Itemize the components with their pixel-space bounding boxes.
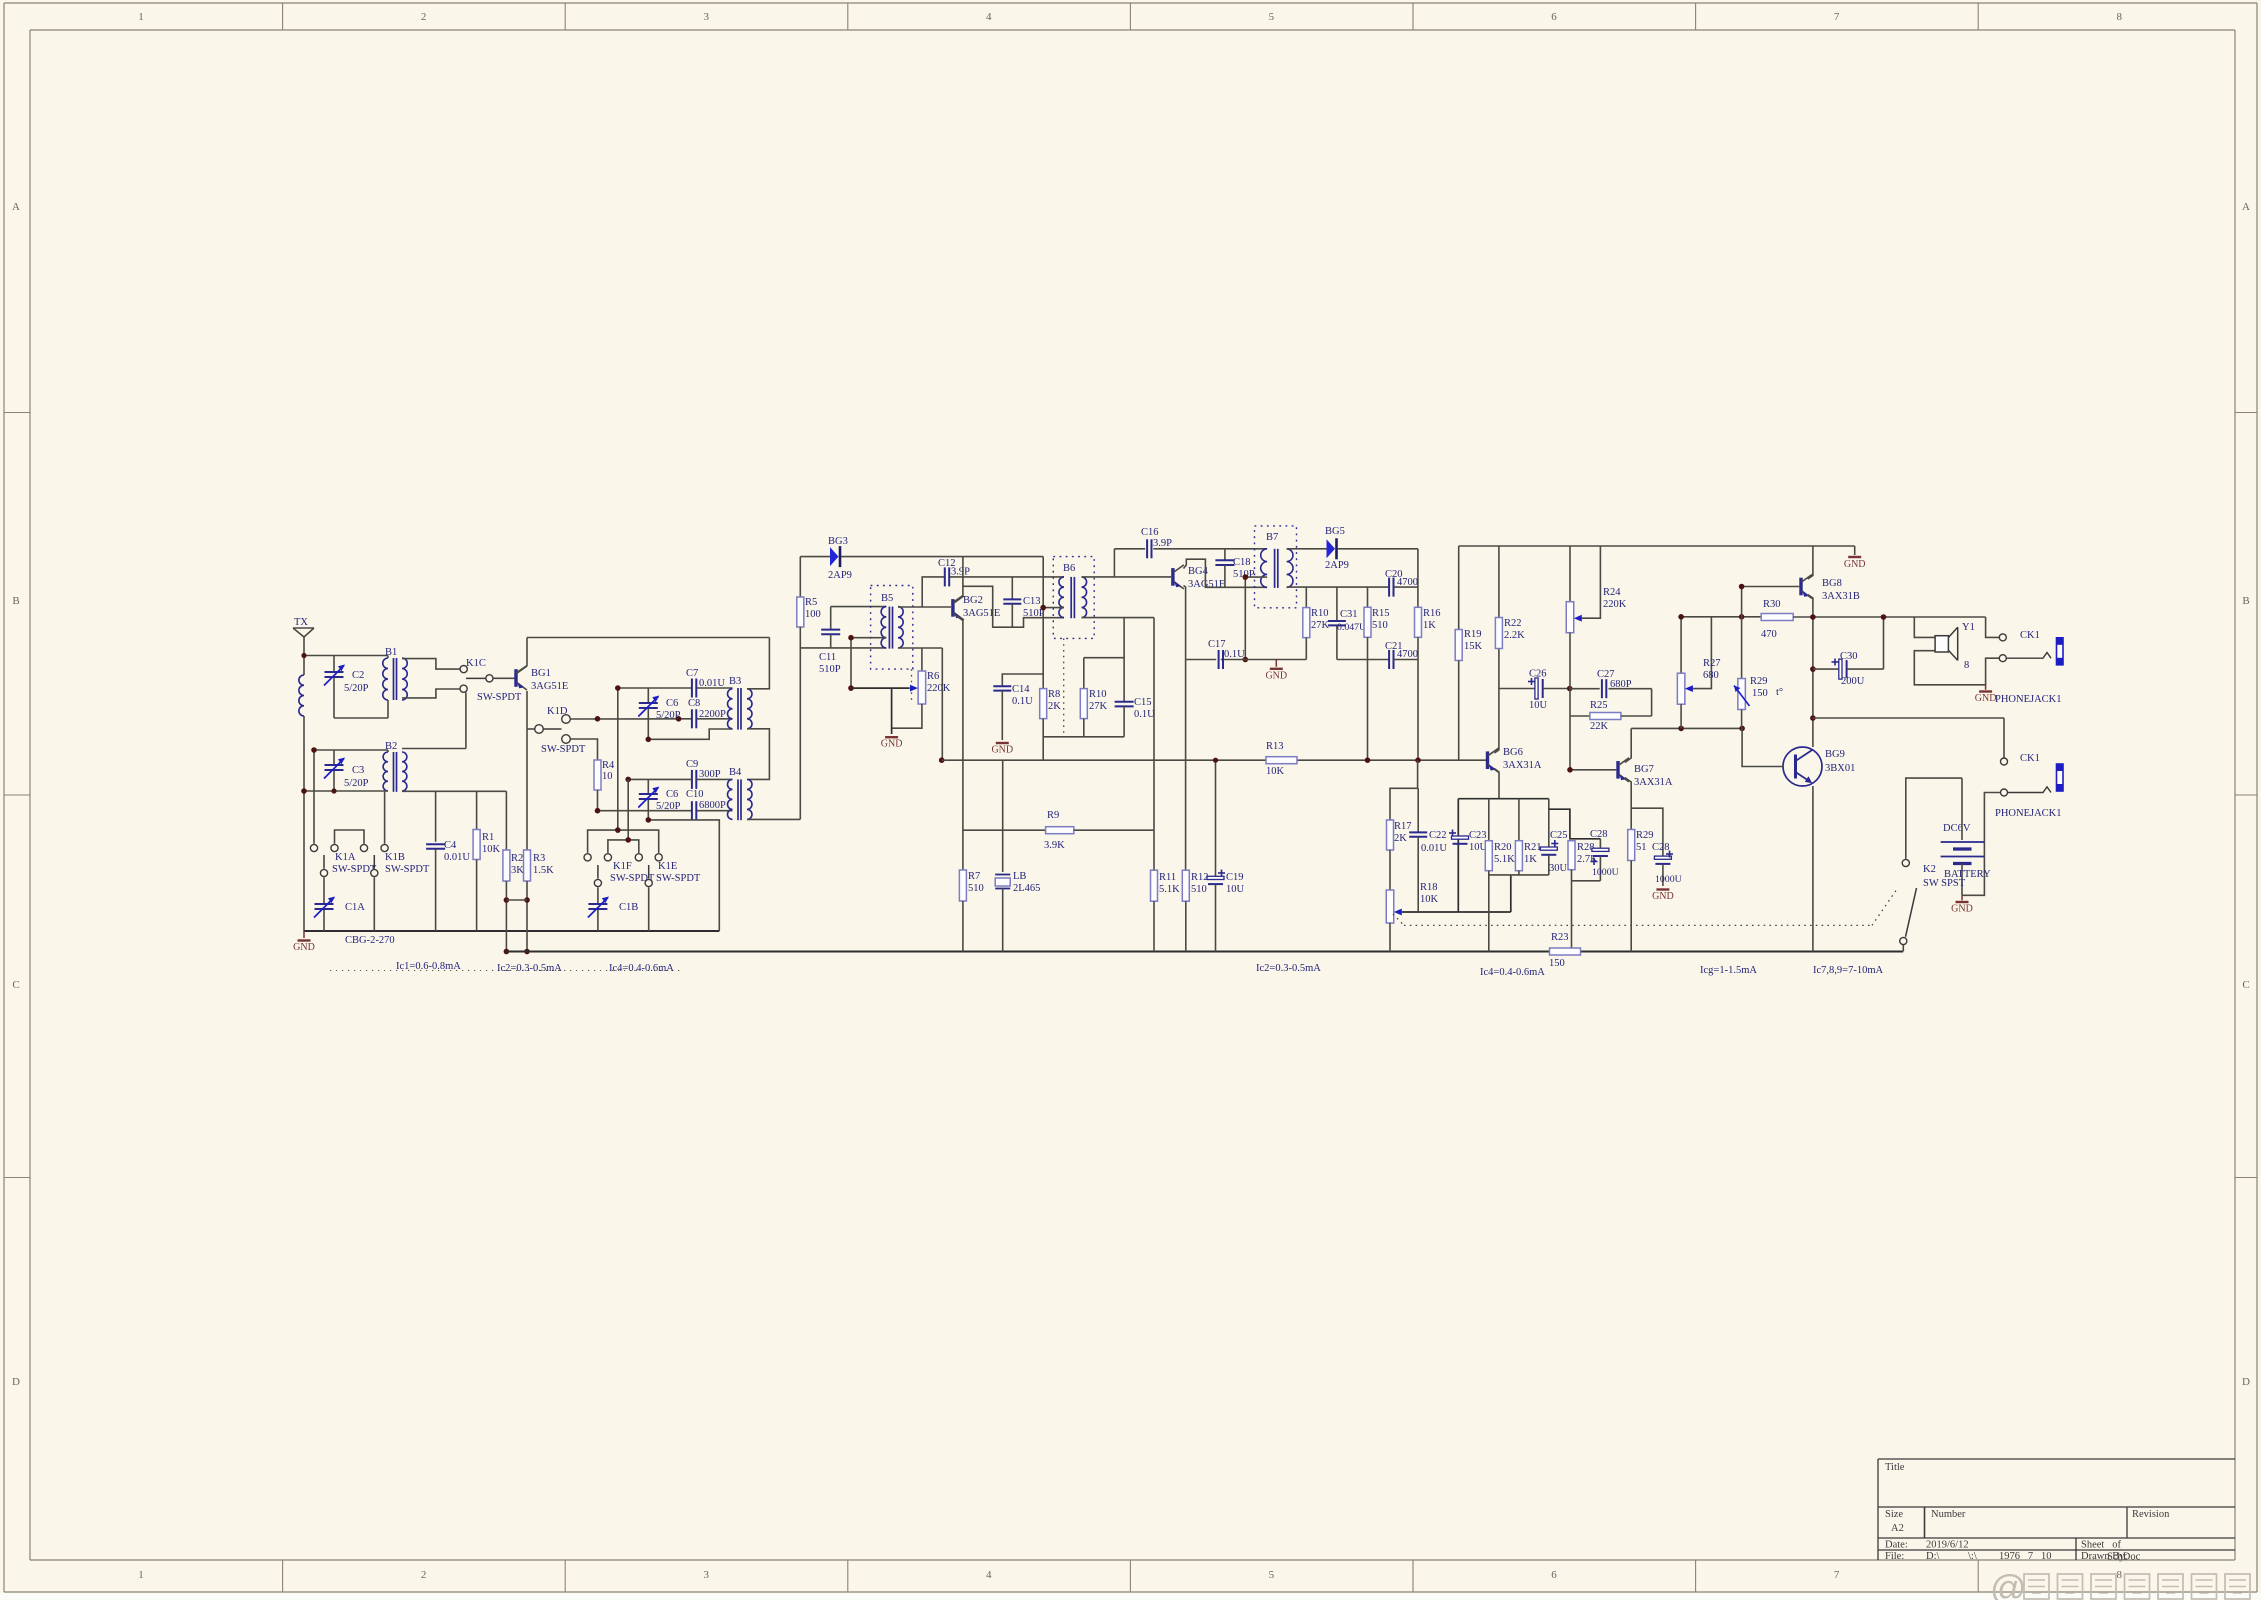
svg-text:3AG51E: 3AG51E (963, 608, 1000, 619)
transformer B3 (728, 676, 753, 730)
node dots C3 bottom net (301, 788, 307, 794)
wire BG2 collector to supply (953, 557, 963, 603)
wire B5 secondary bottom to long rail (898, 648, 942, 760)
top supply rail right section (1459, 545, 1855, 547)
thermistor R29 150 (1734, 587, 1783, 729)
svg-text:3AG51E: 3AG51E (1188, 579, 1225, 590)
switch K1A SW-SPDT (310, 830, 377, 877)
svg-text:CK1: CK1 (2020, 753, 2040, 764)
wire R18 wiper bus (1458, 875, 1511, 912)
wire BG7 base from R24 column (1567, 767, 1616, 773)
mid rail wire to BG6 base (942, 759, 1487, 761)
svg-text:B: B (2242, 595, 2249, 607)
phone jack CK1 upper (1986, 617, 2063, 705)
wire R8 R10 C15 bottom bus (1043, 736, 1124, 738)
svg-text:510: 510 (1191, 884, 1207, 895)
wire B5 secondary to BG2 base and C12 (898, 577, 1064, 607)
transformer B4 (728, 767, 753, 820)
resistor R15 510 (1364, 587, 1390, 760)
transformer B6 with shield box (1053, 557, 1094, 737)
resistor R16 1K (1415, 607, 1441, 760)
svg-text:C3: C3 (352, 765, 364, 776)
wire C3 upper net to K1A (314, 750, 388, 844)
svg-text:GND: GND (1844, 559, 1866, 570)
switch K2 SW SPST (1900, 859, 1966, 951)
potentiometer R27 680 (1677, 617, 1720, 729)
wire BG5 output down to R16 (1417, 549, 1419, 608)
wire B7 secondary bottom bus (1287, 586, 1418, 588)
potentiometer R6 220K (851, 648, 951, 734)
resistor R17 2K (1387, 760, 1418, 890)
svg-text:C13: C13 (1023, 596, 1041, 607)
switch K1F SW-SPDT (584, 827, 659, 886)
wire B2 secondary top to K1C (402, 692, 466, 748)
node dots R30 bus (1678, 614, 1684, 620)
svg-text:0.01U: 0.01U (1421, 843, 1447, 854)
capacitor C7 0.01U (686, 668, 725, 698)
svg-text:0.1U: 0.1U (1224, 649, 1245, 660)
svg-text:R6: R6 (927, 671, 939, 682)
wire R7 top branch to LB and R9 (963, 829, 1046, 831)
wire R28 C28 bottom bus to rail (1572, 880, 1601, 882)
capacitor C8 2200P (688, 698, 726, 728)
resistor R25 22K horizontal (1570, 700, 1652, 732)
svg-text:R8: R8 (1048, 689, 1060, 700)
resistor R11 5.1K (1151, 618, 1181, 952)
svg-text:1: 1 (138, 1569, 144, 1581)
wire R4 bottom to C10 line (598, 790, 733, 811)
svg-text:R1: R1 (482, 832, 494, 843)
svg-text:R16: R16 (1423, 608, 1441, 619)
svg-text:470: 470 (1761, 629, 1777, 640)
svg-text:2AP9: 2AP9 (828, 570, 852, 581)
svg-text:A2: A2 (1891, 1523, 1904, 1534)
switch K1C SW-SPDT (460, 658, 522, 703)
resistor R10 27K second (1303, 587, 1330, 659)
transformer B7 with shield box (1255, 526, 1297, 608)
svg-text:C7: C7 (686, 668, 698, 679)
svg-text:27K: 27K (1311, 620, 1330, 631)
ground GND symbol at rail left (293, 931, 315, 953)
svg-text:R29: R29 (1750, 676, 1768, 687)
watermark juejin community (1990, 1567, 2250, 1600)
svg-text:Ic7,8,9=7-10mA: Ic7,8,9=7-10mA (1813, 965, 1883, 976)
wire K2 to battery top (1906, 778, 1962, 859)
capacitor C2 5/20P variable (324, 656, 369, 719)
svg-text:SW-SPDT: SW-SPDT (656, 873, 701, 884)
svg-text:SW-SPDT: SW-SPDT (477, 692, 522, 703)
svg-text:C28: C28 (1652, 842, 1670, 853)
svg-text:Icg=1-1.5mA: Icg=1-1.5mA (1700, 965, 1757, 976)
svg-text:6: 6 (1551, 11, 1557, 23)
node dot C26 C27 junction (1567, 686, 1573, 692)
svg-text:C30: C30 (1840, 651, 1858, 662)
svg-text:K1C: K1C (466, 658, 486, 669)
wire BG6 collector up to C26 node (1495, 648, 1499, 753)
svg-text:R29: R29 (1636, 830, 1654, 841)
svg-text:3: 3 (703, 11, 709, 23)
ground GND below battery (1951, 895, 1973, 914)
svg-text:K1A: K1A (335, 852, 356, 863)
svg-text:K2: K2 (1923, 864, 1936, 875)
svg-text:Ic4=0.4-0.6mA: Ic4=0.4-0.6mA (609, 963, 674, 974)
svg-text:\:\: \:\ (1968, 1551, 1977, 1562)
svg-text:10K: 10K (1266, 766, 1285, 777)
svg-text:C1B: C1B (619, 902, 638, 913)
resistor R23 150 horizontal on rail (1549, 932, 1581, 969)
resistor R28 2.7K (1568, 841, 1598, 952)
transformer B2 (383, 741, 407, 792)
svg-text:51: 51 (1636, 842, 1647, 853)
svg-text:1K: 1K (1524, 854, 1537, 865)
svg-text:GND: GND (991, 745, 1013, 756)
svg-text:Revision: Revision (2132, 1509, 2170, 1520)
switch K1E SW-SPDT (608, 779, 701, 931)
svg-text:680P: 680P (1610, 679, 1632, 690)
svg-text:7: 7 (1834, 11, 1840, 23)
capacitor C21 4700 (1368, 641, 1419, 669)
resistor R9 3.9K horizontal (1044, 810, 1154, 851)
svg-text:File:: File: (1885, 1551, 1904, 1562)
svg-text:3K: 3K (511, 865, 524, 876)
wire BG9 emitter to rail (1812, 786, 1814, 952)
wire BG8 emitter column (1808, 595, 1813, 748)
node dots on mid rail (1365, 757, 1371, 763)
svg-text:2: 2 (421, 11, 427, 23)
svg-text:R10: R10 (1089, 689, 1107, 700)
svg-text:680: 680 (1703, 670, 1719, 681)
svg-text:R24: R24 (1603, 587, 1621, 598)
svg-text:R2: R2 (511, 853, 523, 864)
resistor R1 10K (473, 791, 500, 931)
node dot B6 tap (1040, 605, 1046, 611)
resistor R13 10K horizontal (1266, 741, 1297, 777)
svg-text:R22: R22 (1504, 618, 1522, 629)
ground GND symbol below R6 (881, 737, 903, 750)
resistor R19 15K (1455, 546, 1482, 760)
wire oscillator feed to B6 tap (1043, 557, 1064, 618)
wire C2 bottom to B1 primary bottom (334, 700, 388, 718)
svg-text:5.1K: 5.1K (1494, 854, 1515, 865)
svg-text:C6: C6 (666, 698, 678, 709)
svg-text:150: 150 (1549, 958, 1565, 969)
svg-text:C22: C22 (1429, 830, 1447, 841)
svg-text:5: 5 (1269, 11, 1275, 23)
svg-text:10: 10 (602, 771, 613, 782)
diode BG3 2AP9 (800, 536, 1043, 581)
svg-text:C4: C4 (444, 840, 457, 851)
svg-text:100: 100 (805, 609, 821, 620)
svg-text:0.01U: 0.01U (699, 678, 725, 689)
wire BG9 base from collector bus (1742, 728, 1783, 766)
svg-text:Number: Number (1931, 1509, 1966, 1520)
svg-text:1: 1 (138, 11, 144, 23)
svg-text:10U: 10U (1529, 700, 1548, 711)
svg-text:2K: 2K (1394, 833, 1407, 844)
mechanical link dotted line K1 (330, 970, 680, 972)
svg-text:B5: B5 (881, 593, 893, 604)
svg-text:BG8: BG8 (1822, 578, 1842, 589)
svg-text:22K: 22K (1590, 721, 1609, 732)
svg-text:B1: B1 (385, 647, 397, 658)
svg-text:BG9: BG9 (1825, 749, 1845, 760)
node dot C9 net (625, 777, 631, 783)
svg-text:C25: C25 (1550, 830, 1568, 841)
wire antenna stem to C3 bottom net (304, 791, 388, 844)
capacitor C30 200U electrolytic (1813, 617, 1884, 687)
svg-text:SW-SPDT: SW-SPDT (541, 744, 586, 755)
svg-text:300P: 300P (699, 769, 721, 780)
wire BG2 emitter down to R7 (953, 614, 963, 871)
capacitor C16 3.9P (1114, 527, 1267, 577)
svg-text:TX: TX (294, 617, 308, 628)
svg-text:C14: C14 (1012, 684, 1030, 695)
capacitor C15 0.1U (1084, 618, 1155, 737)
svg-text:2.2K: 2.2K (1504, 630, 1525, 641)
capacitor C22 0.01U (1409, 788, 1447, 911)
svg-text:BG6: BG6 (1503, 747, 1523, 758)
transformer B5 with shield box (871, 586, 913, 701)
svg-text:A: A (12, 201, 20, 213)
transistor BG8 3AX31B (1801, 575, 1860, 603)
transistor BG4 3AG51E (1082, 565, 1226, 590)
svg-text:Y1: Y1 (1962, 622, 1975, 633)
svg-text:3AX31A: 3AX31A (1503, 760, 1542, 771)
node dot antenna-C2 junction (301, 653, 306, 658)
svg-text:4700: 4700 (1397, 577, 1418, 588)
node dot C6 lower bottom (646, 817, 652, 823)
svg-text:R18: R18 (1420, 882, 1438, 893)
svg-text:30U: 30U (1549, 863, 1568, 874)
svg-text:10U: 10U (1226, 884, 1245, 895)
wire K1C common to BG1 base (493, 677, 514, 679)
capacitor C17 0.1U (1208, 639, 1245, 669)
wire B5 feedback tap (851, 638, 886, 688)
svg-text:2019/6/12: 2019/6/12 (1926, 1540, 1969, 1551)
potentiometer R18 10K (1386, 882, 1458, 952)
capacitor C27 680P (1570, 669, 1652, 716)
zone letters left and right (12, 201, 2250, 1388)
svg-text:R4: R4 (602, 760, 615, 771)
svg-text:@: @ (1990, 1567, 2027, 1600)
wire antenna stem to ground rail (303, 716, 305, 931)
switch K1B SW-SPDT (360, 844, 430, 931)
svg-text:R12: R12 (1191, 872, 1209, 883)
svg-text:GND: GND (1265, 670, 1287, 681)
svg-text:5/20P: 5/20P (344, 683, 369, 694)
ground rail GND bus left section (304, 930, 719, 932)
svg-text:4: 4 (986, 11, 992, 23)
crystal LB 2L465 (995, 760, 1040, 951)
diode BG5 2AP9 (1287, 526, 1418, 571)
svg-text:1K: 1K (1423, 620, 1436, 631)
svg-text:DC6V: DC6V (1943, 823, 1971, 834)
svg-text:R13: R13 (1266, 741, 1284, 752)
svg-text:C19: C19 (1226, 872, 1244, 883)
svg-text:SW SPST: SW SPST (1923, 878, 1966, 889)
resistor R10 27K first (1080, 658, 1107, 737)
svg-text:R21: R21 (1524, 842, 1542, 853)
svg-text:C9: C9 (686, 759, 698, 770)
wire K1D throw to C8 and B3 tap (570, 718, 732, 720)
svg-text:R3: R3 (533, 853, 545, 864)
capacitor C25 30U electrolytic (1540, 799, 1567, 875)
svg-text:GND: GND (293, 942, 315, 953)
svg-text:R9: R9 (1047, 810, 1059, 821)
capacitor C1B variable (588, 887, 638, 931)
svg-text:C8: C8 (688, 698, 700, 709)
svg-text:GND: GND (1652, 891, 1674, 902)
ground GND below second C28 (1652, 890, 1674, 903)
svg-text:D:\: D:\ (1926, 1551, 1940, 1562)
capacitor C9 300P (686, 759, 721, 789)
node dots B7 tap (1243, 574, 1249, 580)
svg-text:27K: 27K (1089, 701, 1108, 712)
svg-text:Sheet of: Sheet of (2081, 1540, 2121, 1551)
resistor R12 510 (1182, 870, 1208, 951)
svg-text:GND: GND (1975, 693, 1997, 704)
svg-text:GND: GND (881, 739, 903, 750)
svg-text:0.1U: 0.1U (1012, 696, 1033, 707)
capacitor C11 510P (819, 607, 841, 675)
svg-text:K1B: K1B (385, 852, 405, 863)
wire C11 top to B5 primary (831, 606, 887, 608)
svg-text:150: 150 (1752, 688, 1768, 699)
svg-text:CK1: CK1 (2020, 630, 2040, 641)
svg-text:C2: C2 (352, 670, 364, 681)
transistor BG7 3AX31A (1618, 758, 1673, 788)
transistor BG6 3AX31A (1488, 747, 1542, 772)
svg-text:B3: B3 (729, 676, 741, 687)
svg-text:8: 8 (2116, 11, 2122, 23)
svg-text:R17: R17 (1394, 821, 1412, 832)
wire B2 secondary bottom to bias network (402, 790, 506, 792)
svg-text:3.9P: 3.9P (951, 567, 970, 578)
svg-text:220K: 220K (927, 683, 951, 694)
wire BG8 emitter to lower jack (1813, 718, 2004, 758)
wire BG6 emitter to emitter bus (1494, 769, 1499, 799)
resistor R22 2.2K (1495, 546, 1525, 649)
hook wire emitter bus to R28 (1549, 809, 1601, 839)
svg-text:BG3: BG3 (828, 536, 848, 547)
resistor R20 5.1K (1485, 799, 1515, 952)
wire BG7 collector riser (1625, 728, 1631, 762)
svg-text:15K: 15K (1464, 641, 1483, 652)
svg-text:5.1K: 5.1K (1159, 884, 1180, 895)
svg-text:B7: B7 (1266, 532, 1278, 543)
svg-text:6: 6 (1551, 1569, 1557, 1581)
svg-text:2K: 2K (1048, 701, 1061, 712)
svg-text:C6: C6 (666, 789, 678, 800)
wire C7 net from switch feed (618, 688, 733, 830)
svg-text:2AP9: 2AP9 (1325, 560, 1349, 571)
svg-text:C15: C15 (1134, 697, 1152, 708)
svg-text:3AX31A: 3AX31A (1634, 777, 1673, 788)
capacitor C26 10U electrolytic (1499, 669, 1570, 712)
svg-text:C1A: C1A (345, 902, 365, 913)
potentiometer R24 220K (1566, 546, 1627, 770)
wire to BG8 base (1742, 586, 1800, 588)
wire R30 input bus (1681, 616, 1761, 618)
capacitor C19 10U electrolytic (1207, 760, 1245, 951)
transistor BG9 3BX01 with circle (1783, 747, 1855, 786)
wire BG7 emitter to R29 (1625, 778, 1631, 830)
svg-text:1000U: 1000U (1655, 874, 1682, 885)
svg-text:D: D (12, 1376, 20, 1388)
title block (1878, 1459, 2235, 1563)
wire lower jack ring to battery ground (1962, 793, 2001, 896)
resistor R5 100 (797, 557, 821, 820)
bottom long rail to K2 (506, 951, 1903, 953)
svg-text:Title: Title (1885, 1462, 1905, 1473)
svg-text:3.9P: 3.9P (1153, 538, 1172, 549)
svg-text:C28: C28 (1590, 829, 1608, 840)
wire K1D lower throw to R4 (570, 739, 597, 760)
svg-text:B6: B6 (1063, 563, 1075, 574)
svg-text:220K: 220K (1603, 599, 1627, 610)
resistor R7 510 (959, 870, 983, 952)
svg-text:C23: C23 (1469, 830, 1487, 841)
node dots on K1D tap wire (595, 716, 601, 722)
phone jack CK1 lower (1995, 753, 2063, 819)
mechanical link dotted line to K2 (1393, 889, 1897, 925)
svg-text:8: 8 (1964, 660, 1969, 671)
svg-text:BG1: BG1 (531, 668, 551, 679)
wire R20 R21 C25 bottom bus (1489, 874, 1549, 876)
capacitor C20 4700 (1385, 569, 1418, 597)
svg-text:0.047U: 0.047U (1337, 622, 1366, 633)
svg-text:R20: R20 (1494, 842, 1512, 853)
ground GND stub on C17 bus (1265, 660, 1287, 682)
svg-text:R10: R10 (1311, 608, 1329, 619)
capacitor C28 1000U electrolytic first (1590, 829, 1619, 881)
svg-text:1.5K: 1.5K (533, 865, 554, 876)
node dot C19 top (1213, 758, 1218, 763)
svg-text:5/20P: 5/20P (656, 801, 681, 812)
node dot C3 net (311, 747, 317, 753)
wire R5 bottom to B5 primary bottom (800, 647, 886, 649)
svg-text:2: 2 (421, 1569, 427, 1581)
svg-text:4700: 4700 (1397, 649, 1418, 660)
svg-text:200U: 200U (1841, 676, 1865, 687)
wire B4 secondary bottom to R5 column (747, 818, 800, 820)
wire C17 bus (1186, 659, 1368, 661)
battery DC6V (1941, 778, 1991, 895)
loudspeaker Y1 8 ohm (1914, 617, 1999, 685)
svg-text:1000U: 1000U (1592, 867, 1619, 878)
svg-text:R5: R5 (805, 597, 817, 608)
node dot R4 bottom (595, 808, 601, 814)
svg-text:Ic2=0.3-0.5mA: Ic2=0.3-0.5mA (1256, 963, 1321, 974)
resistor R29 51 (1628, 830, 1654, 952)
resistor R3 1.5K (524, 850, 555, 952)
transformer B1 (383, 647, 408, 700)
ground GND symbol below C14 (991, 743, 1013, 756)
node dots collector bus (1678, 726, 1684, 732)
svg-text:5/20P: 5/20P (344, 778, 369, 789)
svg-text:5: 5 (1269, 1569, 1275, 1581)
svg-text:PHONEJACK1: PHONEJACK1 (1995, 694, 2062, 705)
svg-text:C26: C26 (1529, 669, 1547, 680)
svg-text:GND: GND (1951, 904, 1973, 915)
svg-text:10K: 10K (482, 844, 501, 855)
svg-text:R19: R19 (1464, 629, 1482, 640)
capacitor C28 1000U electrolytic second (1631, 808, 1681, 886)
wire BG2 feedback loop to C13 (963, 586, 1064, 627)
svg-text:R7: R7 (968, 871, 980, 882)
svg-text:4: 4 (986, 1569, 992, 1581)
svg-text:BG7: BG7 (1634, 764, 1654, 775)
